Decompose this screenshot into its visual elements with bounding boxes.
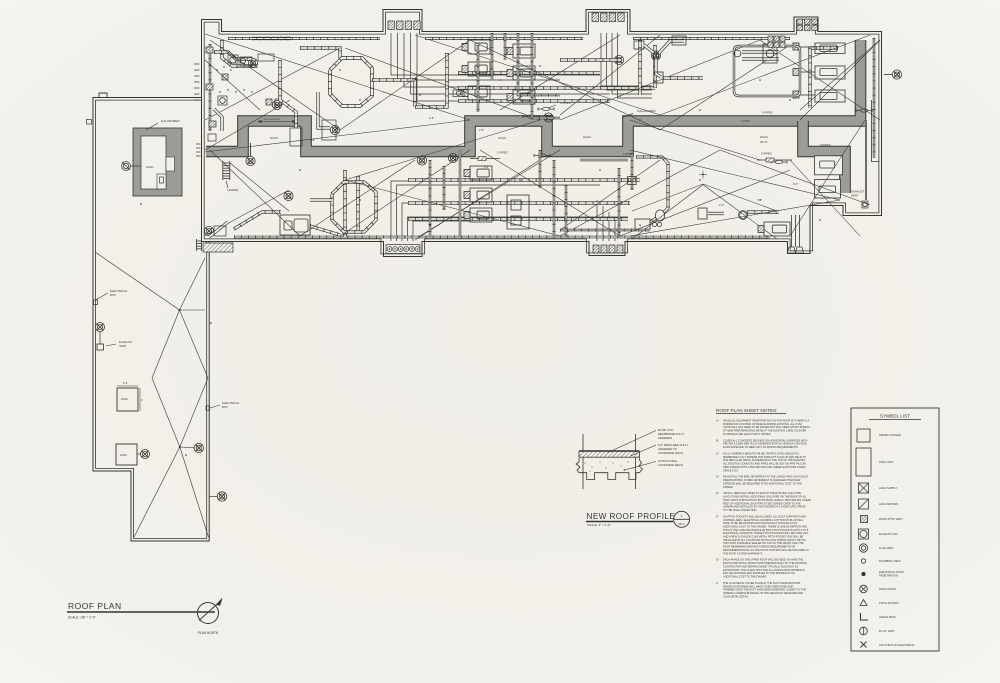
wing brace upper-right (180, 258, 206, 310)
duct run y219 (408, 217, 628, 220)
tie wire (500, 35, 620, 110)
vert duct x505 (504, 33, 506, 60)
duct top-left short (252, 37, 291, 40)
penthouse label leader (146, 123, 158, 130)
svg-text:4-HOOD: 4-HOOD (741, 121, 750, 123)
hatched vents inside top bump 1 (388, 21, 394, 30)
leader to right fan (884, 74, 892, 76)
tie wire (415, 35, 660, 115)
right-edge units in gray surround (815, 156, 843, 198)
svg-text:CLAD METAL DETAIL.: CLAD METAL DETAIL. (723, 594, 749, 598)
tie wire (300, 160, 415, 236)
unit with two squares bottom center-right (507, 195, 529, 229)
svg-text:HVAC: HVAC (146, 165, 154, 169)
fan stem (250, 143, 252, 156)
tie wire (630, 150, 840, 200)
duct run y180 (408, 178, 640, 181)
svg-text:NEW ROOF PROFILE: NEW ROOF PROFILE (587, 512, 676, 521)
arm duct 3 (656, 59, 661, 77)
svg-text:3'-4": 3'-4" (123, 381, 128, 385)
svg-text:8'-6": 8'-6" (793, 182, 798, 186)
svg-text:BOX: BOX (222, 405, 228, 409)
exhaust fan (204, 226, 213, 235)
svg-text:FLUE VENT: FLUE VENT (879, 546, 894, 550)
tie wire (800, 40, 880, 120)
leader galvanized (622, 114, 633, 118)
svg-text:26'-6": 26'-6" (760, 140, 768, 144)
ring inner duct 1 (742, 50, 779, 53)
duct run y73 (458, 71, 600, 74)
svg-text:2'-8": 2'-8" (479, 128, 484, 132)
corner duct d (318, 92, 330, 128)
new roof profile detail (576, 434, 643, 489)
svg-text:GALV WALKWAY: GALV WALKWAY (263, 118, 281, 121)
svg-text:2 PIPES: 2 PIPES (497, 151, 508, 155)
hvac unit (507, 90, 535, 104)
arm duct 1 (644, 45, 654, 53)
wall box 3b (209, 121, 216, 127)
right wall duct (873, 38, 875, 158)
wing brace upper-left (95, 252, 180, 310)
symbol angle iron (861, 613, 869, 620)
duct top small run (300, 48, 340, 58)
wall box 3 (208, 134, 216, 141)
dimension ticks outside left wall (194, 63, 200, 65)
symbol bur vent (860, 627, 868, 635)
hvac unit (464, 188, 492, 202)
hvac unit (462, 40, 490, 54)
svg-text:E/: E/ (716, 491, 719, 495)
duct run y88 (458, 86, 655, 89)
tie wire (560, 150, 720, 236)
svg-text:TO THE FINAL INSPECTION.: TO THE FINAL INSPECTION. (723, 508, 757, 512)
duct vertical bottom-center 2 (343, 170, 346, 237)
rb vertical duct 1 (618, 168, 620, 238)
hatch grid top right (768, 36, 773, 41)
vent caps in bottom bump 1 (387, 247, 392, 252)
svg-text:HVAC RETURN: HVAC RETURN (879, 502, 898, 506)
symbol hvac supply (859, 483, 869, 493)
big hvac unit bottom-left (280, 215, 310, 235)
rb circle pair a (652, 222, 656, 226)
tie wire (205, 190, 289, 236)
penthouse gray structure in wing (133, 128, 182, 196)
wing brace lower-left (134, 447, 180, 538)
vert duct x492 (491, 33, 493, 80)
svg-text:5 PIPES: 5 PIPES (820, 143, 831, 147)
right wall duct 2 (865, 120, 867, 200)
arm duct 4 (663, 76, 703, 79)
duct diagonal to unit (310, 226, 340, 235)
tie wire (205, 34, 470, 120)
symbol pitch pocket (860, 600, 867, 606)
hatch sq a (222, 74, 228, 80)
svg-text:HVAC UNIT: HVAC UNIT (879, 460, 894, 464)
hatched vents inside top bump 2 (592, 13, 598, 22)
svg-text:ROOF PLAN: ROOF PLAN (68, 601, 122, 611)
dimension ticks outside wing bottom-left (126, 559, 132, 561)
corner duct b (214, 109, 222, 131)
svg-text:1: 1 (681, 514, 683, 518)
wing brace lower-right (180, 447, 209, 537)
svg-text:HVAC: HVAC (583, 135, 592, 139)
vert duct x554 bottom (553, 160, 555, 237)
arm2 joint diamond (739, 211, 748, 220)
svg-text:B.U.R. VENT: B.U.R. VENT (879, 629, 895, 633)
tie wire (210, 150, 300, 236)
wing brace tie (180, 309, 206, 311)
symbol electrical roof penetration (862, 572, 866, 576)
duct loop top (330, 58, 372, 106)
corner small eq (230, 57, 236, 63)
perimeter duct top (228, 37, 380, 39)
left wall duct (209, 44, 211, 131)
ring inner duct 2 (742, 57, 779, 60)
svg-text:OWNER.: OWNER. (723, 485, 734, 489)
wall box 2 (206, 84, 213, 90)
svg-text:J/: J/ (716, 581, 718, 585)
symbol uni strut (861, 642, 867, 648)
hvac unit (464, 208, 492, 222)
wing exhaust vent box (97, 344, 104, 350)
roof drain near penthouse (122, 162, 131, 171)
arm box c (654, 72, 663, 83)
symbol roof drain (860, 585, 868, 593)
perimeter duct top 2 (425, 37, 583, 39)
main building inner outline (204, 12, 879, 254)
wing brace tie 2 (180, 446, 194, 449)
tie wire (415, 160, 540, 240)
duct loop inlet (310, 198, 332, 201)
ladder symbol (223, 161, 230, 180)
hvac unit (507, 44, 535, 58)
leader 1 (608, 431, 656, 453)
duct top-left corner (222, 40, 258, 66)
duct diagonal bottom-left (234, 212, 281, 229)
svg-text:F/: F/ (716, 514, 719, 518)
wall box 1 (206, 47, 213, 53)
symbol hvac unit (856, 448, 871, 476)
hatched vents inside top bump 3 (797, 19, 803, 24)
svg-text:ADHERED: ADHERED (658, 436, 672, 440)
symbol flue vent (859, 544, 867, 552)
vert duct x566 bottom (565, 185, 567, 237)
small box outside wing left edge (87, 120, 92, 125)
svg-text:PLAN NORTH: PLAN NORTH (198, 631, 219, 635)
aggregate dots in deck (585, 463, 586, 464)
tie wire (210, 40, 340, 130)
vert duct x518 (518, 33, 560, 95)
duct run y203 (408, 201, 630, 204)
symbol hvac return (859, 499, 869, 509)
svg-text:PENETRATION: PENETRATION (879, 574, 898, 578)
svg-text:FOAM ADHESIVE TO MEET MFI / AS: FOAM ADHESIVE TO MEET MFI / AS FROWN REQ… (723, 445, 799, 449)
box below duct c (290, 128, 302, 146)
tie wire (660, 35, 870, 115)
svg-text:THE ROOF SYSTEM WARRANTY.: THE ROOF SYSTEM WARRANTY. (723, 551, 763, 555)
duct vertical bottom-center (356, 176, 359, 232)
tie wire (420, 150, 560, 236)
svg-text:PITCH POCKET: PITCH POCKET (879, 601, 899, 605)
tie wire (630, 200, 840, 236)
tie wire (480, 150, 620, 236)
gray corridor band (galvanized walkway) (206, 40, 861, 152)
tie wire (560, 35, 660, 115)
svg-text:SCREENS WILL BE REQUIRED AT NO: SCREENS WILL BE REQUIRED AT NO ADDITIONA… (723, 481, 802, 485)
small box with circle mid-top (453, 90, 464, 97)
svg-text:C/: C/ (716, 452, 719, 456)
corner duct c (280, 60, 296, 128)
wing exhaust vent fan (96, 323, 105, 332)
svg-text:BOX: BOX (110, 293, 116, 297)
tie wire (340, 40, 470, 130)
north arrow (217, 599, 223, 606)
chevron 1 (632, 184, 777, 211)
svg-text:2'-8": 2'-8" (310, 138, 315, 142)
arm joint circle (653, 52, 659, 58)
main building outer outline (202, 10, 882, 257)
svg-text:FLASHINGS ARE LESS THAN 2 INCH: FLASHINGS ARE LESS THAN 2 INCHES. (723, 432, 772, 436)
walkway dimension arrow (258, 121, 296, 123)
tie wire (660, 45, 790, 130)
svg-text:SYMBOL LIST: SYMBOL LIST (880, 414, 910, 419)
tie wire (340, 150, 470, 236)
chevron 2 (632, 185, 777, 239)
symbol exhaust fan (859, 529, 869, 539)
tie wire (205, 48, 340, 120)
corner box a (228, 55, 238, 63)
wing fan by hvac box (141, 450, 150, 459)
exhaust fan (417, 156, 426, 165)
vert duct x540 bottom (539, 150, 541, 188)
svg-text:GALVANIZED: GALVANIZED (637, 109, 656, 113)
svg-text:UNI STRUT W/ ELECTRICAL: UNI STRUT W/ ELECTRICAL (879, 643, 915, 647)
sq c (275, 99, 281, 105)
symbol swamp cooler (857, 429, 870, 442)
tie wire (345, 120, 540, 180)
corner diagonal duct (209, 222, 228, 237)
leader 3 (625, 462, 657, 471)
svg-text:GALVANIZED: GALVANIZED (161, 119, 180, 123)
arm box b (672, 36, 686, 45)
rb circle pair b (657, 222, 661, 226)
exhaust fan (248, 58, 257, 67)
svg-text:2'-8": 2'-8" (429, 116, 434, 120)
svg-text:HVAC: HVAC (121, 397, 128, 401)
electrical box symbol 2 (206, 406, 210, 410)
leader electrical box (96, 293, 109, 300)
svg-text:HVAC: HVAC (760, 135, 769, 139)
svg-text:5 PIPES: 5 PIPES (560, 101, 571, 105)
corner box (214, 226, 226, 236)
svg-text:HVAC: HVAC (498, 136, 507, 140)
svg-text:VENT: VENT (119, 344, 127, 348)
scattered penetration dots (339, 69, 341, 71)
big ring duct near top-right (734, 46, 800, 96)
plan north circle (198, 603, 219, 624)
symbol roof attic vent (861, 516, 868, 523)
tie wire (560, 40, 760, 120)
box d2 (322, 120, 336, 140)
svg-text:HVAC SUPPLY: HVAC SUPPLY (879, 486, 898, 490)
svg-text:EXHAUST FAN: EXHAUST FAN (879, 532, 898, 536)
exhaust fan (651, 51, 660, 60)
rb vertical duct 2 (631, 153, 633, 190)
hood symbols (538, 107, 554, 110)
duct vertical mid (415, 53, 447, 107)
vert duct x532 (532, 33, 560, 118)
svg-text:CONCRETE DECK.: CONCRETE DECK. (658, 451, 684, 455)
tie wire (345, 180, 560, 236)
svg-text:ELECTRICAL ROOF: ELECTRICAL ROOF (879, 570, 904, 574)
duct run y101 (458, 99, 610, 102)
svg-text:ROOF ATTIC VENT: ROOF ATTIC VENT (879, 517, 903, 521)
svg-text:ADDITIONAL COST TO THE OWNER.: ADDITIONAL COST TO THE OWNER. (723, 574, 767, 578)
tie wire (470, 40, 660, 130)
dots cluster top-left (216, 69, 217, 70)
svg-text:SPACE 8 OC.: SPACE 8 OC. (723, 468, 739, 472)
run y230 (560, 229, 650, 231)
svg-text:5 PIPES: 5 PIPES (762, 111, 773, 115)
rb small box on duct (628, 177, 637, 185)
svg-text:PLUMBING VENT: PLUMBING VENT (879, 559, 901, 563)
electrical box symbol (94, 300, 98, 305)
hvac unit (507, 66, 535, 80)
wing fan at right edge (217, 492, 226, 501)
exhaust fan (272, 100, 281, 109)
5-pipe riser cluster below top bump 1 (391, 33, 600, 75)
svg-text:3-HOOD: 3-HOOD (623, 154, 632, 156)
leader 2 (631, 445, 656, 456)
svg-text:ANGLE IRON: ANGLE IRON (879, 615, 896, 619)
svg-text:ROOF DRAIN: ROOF DRAIN (879, 587, 896, 591)
svg-text:HVAC: HVAC (270, 136, 279, 140)
hvac unit (462, 86, 490, 100)
arm2 duct 2 (747, 210, 779, 213)
symbol plumbing vent (861, 559, 865, 563)
exhaust fan (284, 191, 293, 200)
sq with circle (218, 96, 227, 105)
hatch sq b (266, 99, 272, 105)
corner duct a (214, 52, 252, 59)
hvac unit (464, 166, 492, 180)
arm2 joint (739, 211, 748, 220)
tie wire (790, 160, 860, 236)
detail bubble (674, 511, 690, 527)
svg-text:LADDER: LADDER (227, 188, 238, 192)
svg-text:D/: D/ (716, 475, 719, 479)
duct along bottom edge (234, 236, 770, 239)
svg-text:R0-1: R0-1 (678, 522, 685, 526)
riser pipes above bottom bump 2 (596, 200, 598, 241)
wing hvac box B (116, 444, 137, 465)
rb unit (758, 222, 790, 236)
hatched vents inside bottom bump 2 (593, 245, 599, 253)
tie wire (630, 120, 760, 160)
exhaust fan (614, 55, 623, 64)
ladder symbol (197, 239, 202, 251)
exhaust fan (246, 156, 255, 165)
vert duct x430 bottom (429, 160, 431, 237)
wing top edge bump (99, 93, 107, 98)
pipe support detail symbols (470, 158, 500, 160)
svg-text:A/: A/ (716, 419, 719, 423)
exhaust fan (448, 153, 457, 162)
tie wire (620, 170, 790, 236)
exhaust fan (544, 113, 553, 122)
svg-text:8'-6": 8'-6" (484, 165, 489, 169)
left wing inner outline (96, 100, 207, 538)
rb box end (635, 219, 650, 230)
tie wire (790, 120, 865, 236)
svg-text:G/: G/ (716, 558, 719, 562)
duct right vertical 2 (653, 45, 656, 88)
corner box b (240, 57, 252, 66)
tie wire (205, 100, 290, 150)
tie wire (345, 48, 540, 120)
tie wire (205, 60, 260, 110)
svg-text:5 PIPES: 5 PIPES (761, 152, 772, 156)
svg-text:B/: B/ (716, 438, 719, 442)
exhaust fan (892, 70, 901, 79)
arm2 box (698, 208, 707, 219)
ring box with circle (763, 44, 777, 63)
vert duct x478 (477, 45, 479, 112)
svg-text:HVAC: HVAC (120, 453, 127, 457)
run y60 (560, 58, 620, 61)
tie wire (230, 163, 289, 211)
leader to fan (137, 453, 141, 455)
duct loop bottom (332, 182, 376, 232)
tie wire (800, 40, 880, 110)
run y160 bottom (580, 159, 628, 161)
tie wire (760, 40, 880, 120)
left wing outer outline (93, 98, 209, 542)
symbol list box (851, 408, 939, 651)
svg-text:VENT: VENT (851, 194, 859, 198)
notch pipes bottom right (791, 215, 793, 247)
arm2 duct 1 (707, 212, 724, 215)
svg-text:2'-4": 2'-4" (719, 203, 724, 207)
duct right edge vertical (810, 48, 838, 108)
arm box a (634, 41, 644, 49)
right column units inside ring (793, 43, 845, 102)
arm duct 2 (659, 41, 684, 53)
svg-text:SCALE: 1/8" = 1'-0": SCALE: 1/8" = 1'-0" (68, 616, 96, 620)
ring joint circle (734, 50, 741, 57)
corner hatch box (203, 243, 233, 252)
riser pipes above bottom bump 1 (391, 181, 640, 241)
duct loop outlet (372, 80, 415, 107)
svg-text:ROOF PLAN SHEET NOTES:: ROOF PLAN SHEET NOTES: (716, 408, 777, 413)
vert duct x460 bottom (459, 150, 461, 237)
small bur vent box near notch (862, 201, 868, 208)
corner box c (258, 54, 274, 61)
svg-text:SWAMP COOLER: SWAMP COOLER (879, 433, 901, 437)
tie wire (560, 160, 660, 230)
vert duct x444 bottom (443, 166, 445, 210)
pipes below top bump 2 (601, 33, 652, 86)
svg-text:SCALE: 3" = 1'-0": SCALE: 3" = 1'-0" (587, 523, 611, 527)
gray band right lower branch (803, 121, 845, 193)
wing brace diamond (152, 310, 208, 447)
leader wing fan right edge (209, 496, 217, 498)
wing fan right of node (194, 443, 203, 452)
tie wire (205, 120, 470, 152)
duct right vertical 1 (638, 40, 641, 95)
exhaust fan (330, 125, 339, 134)
tie wire (720, 150, 870, 205)
